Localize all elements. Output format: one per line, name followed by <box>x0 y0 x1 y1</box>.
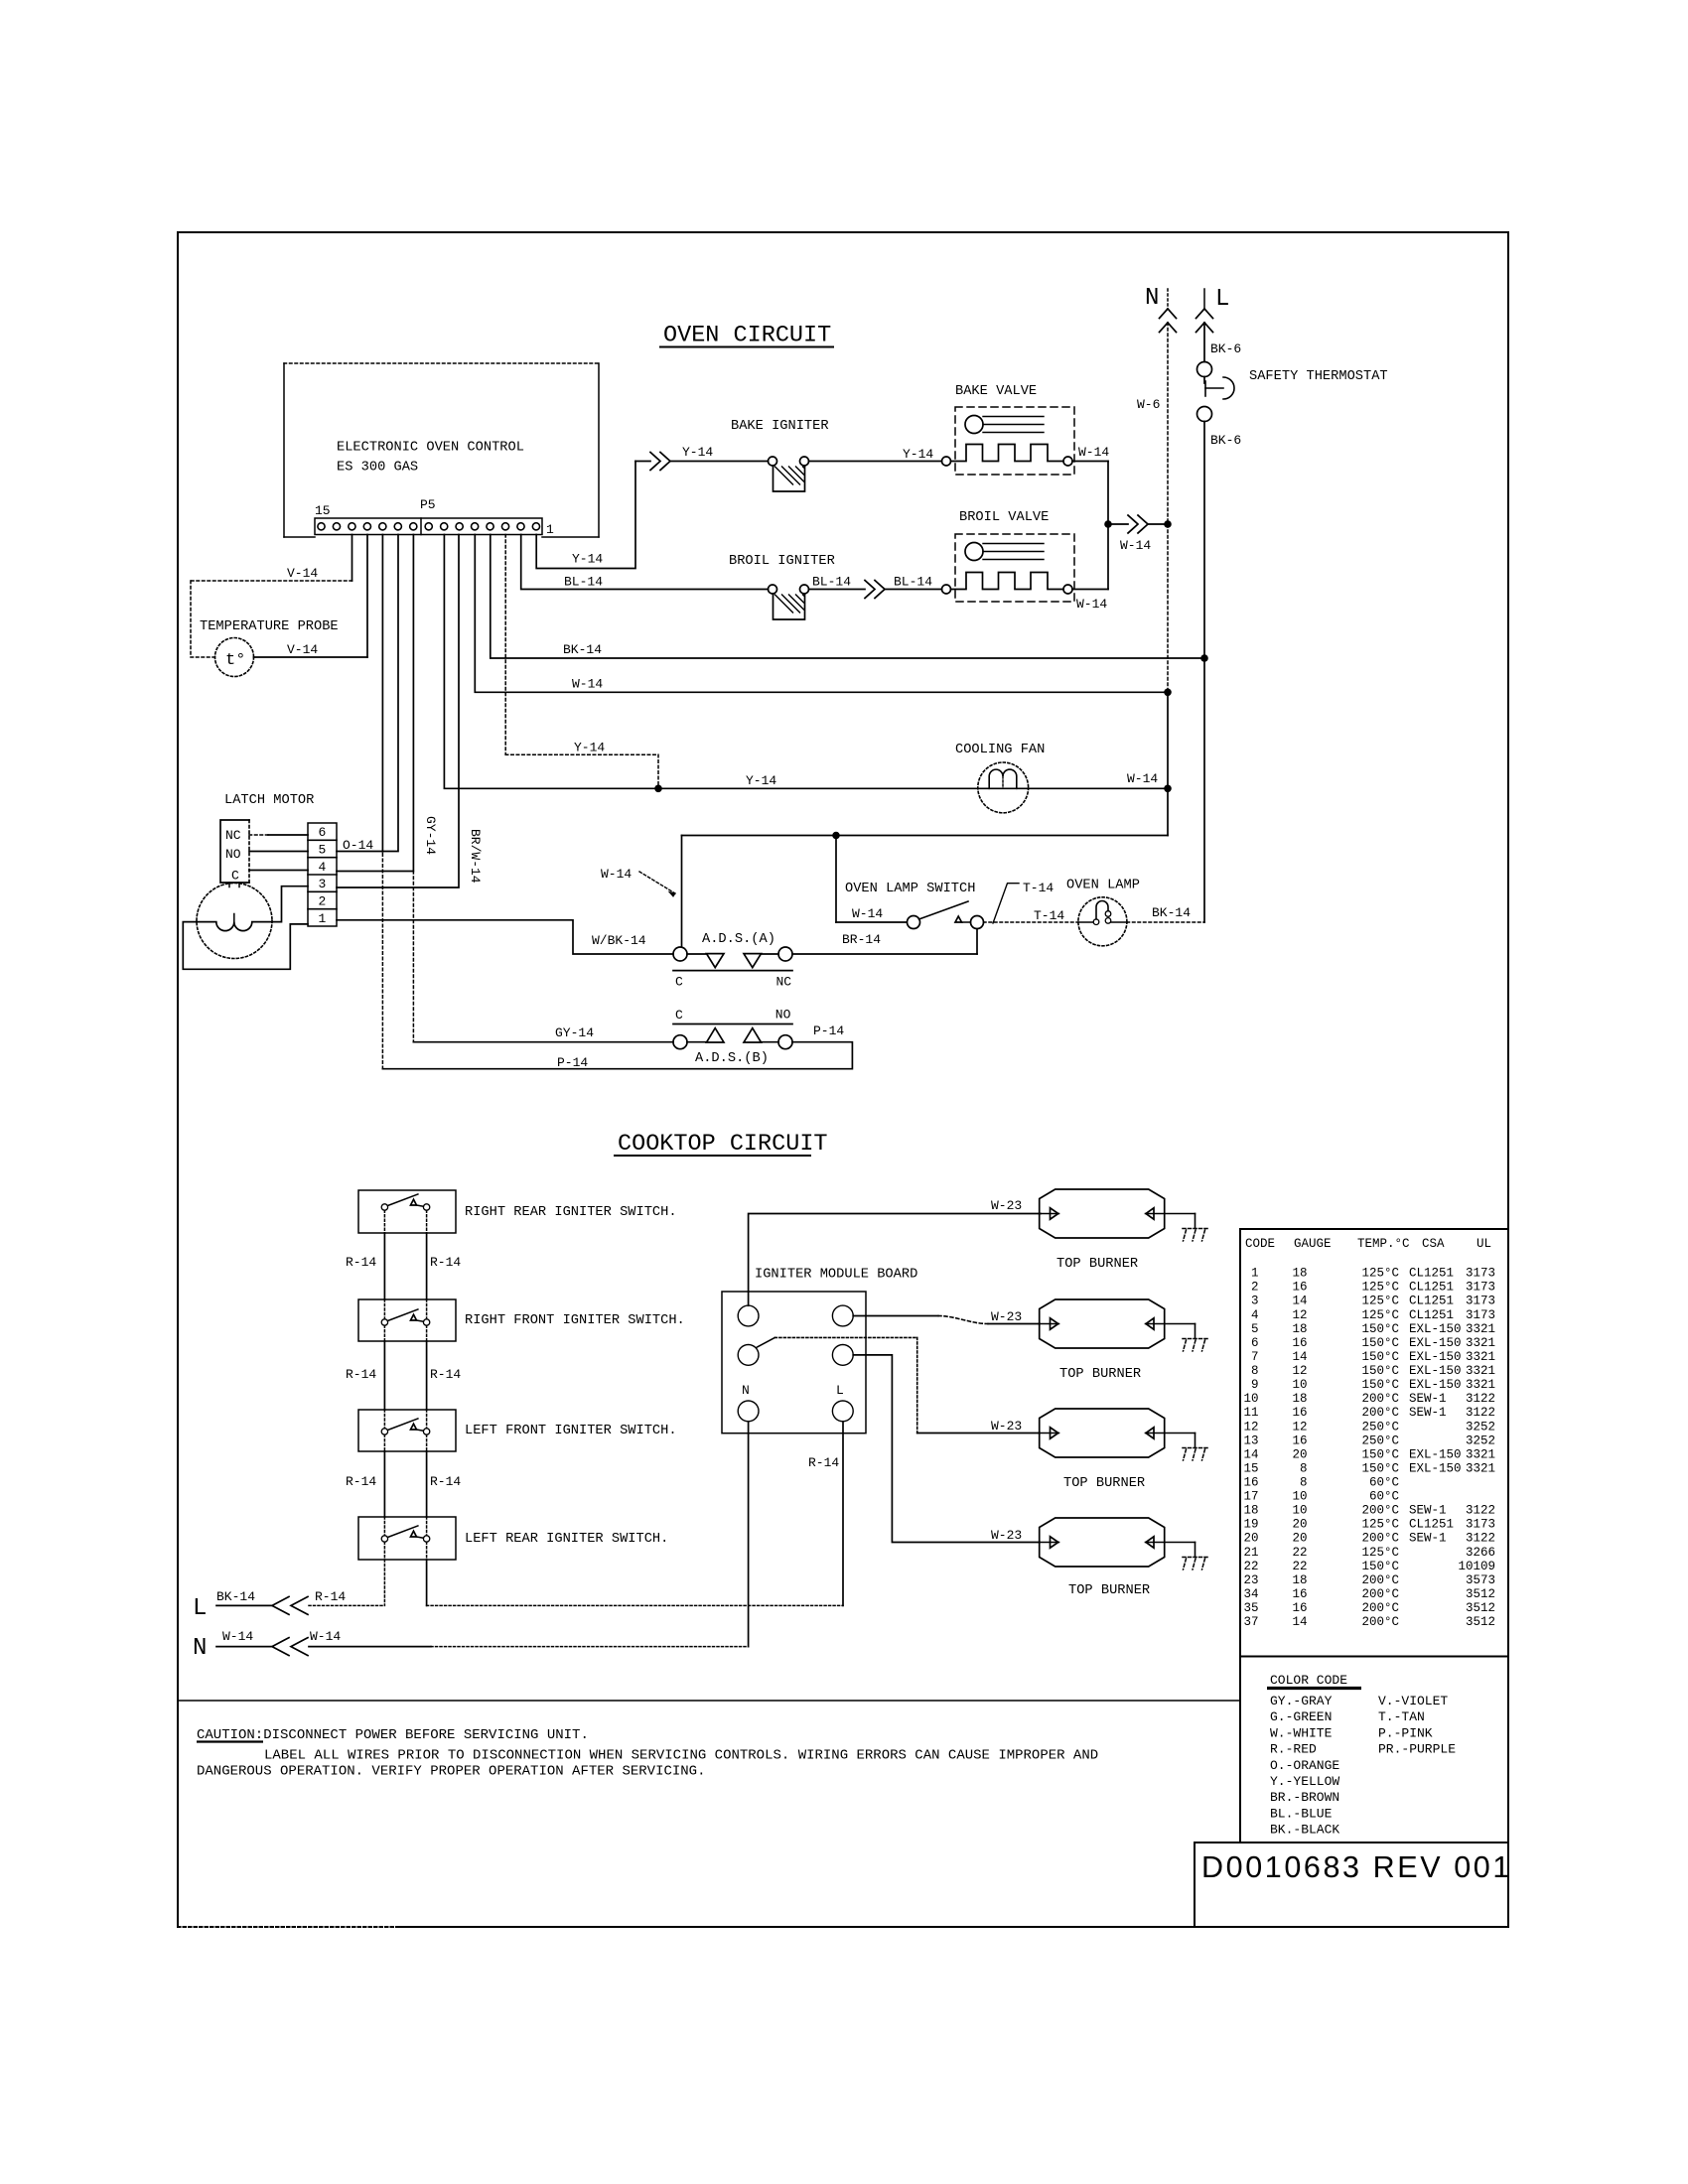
svg-text:60°C: 60°C <box>1369 1476 1399 1490</box>
svg-text:150°C: 150°C <box>1361 1322 1399 1336</box>
svg-text:BROIL VALVE: BROIL VALVE <box>959 510 1049 525</box>
svg-text:GY.-GRAY: GY.-GRAY <box>1270 1694 1333 1708</box>
svg-text:8: 8 <box>1300 1476 1308 1490</box>
svg-text:125°C: 125°C <box>1361 1546 1399 1560</box>
svg-text:BK-14: BK-14 <box>216 1589 255 1604</box>
svg-text:COOLING FAN: COOLING FAN <box>955 743 1045 757</box>
svg-text:CL1251: CL1251 <box>1409 1281 1454 1295</box>
svg-text:125°C: 125°C <box>1361 1295 1399 1308</box>
svg-text:200°C: 200°C <box>1361 1504 1399 1518</box>
svg-text:150°C: 150°C <box>1361 1560 1399 1573</box>
svg-text:GY-14: GY-14 <box>423 816 438 855</box>
svg-text:150°C: 150°C <box>1361 1447 1399 1461</box>
svg-text:R-14: R-14 <box>430 1367 461 1382</box>
svg-text:3173: 3173 <box>1466 1518 1495 1532</box>
svg-text:14: 14 <box>1292 1615 1307 1629</box>
svg-text:R.-RED: R.-RED <box>1270 1742 1317 1757</box>
svg-text:3321: 3321 <box>1466 1336 1495 1350</box>
svg-text:IGNITER MODULE BOARD: IGNITER MODULE BOARD <box>755 1268 917 1283</box>
svg-text:A.D.S.(A): A.D.S.(A) <box>702 932 775 947</box>
svg-text:19: 19 <box>1243 1518 1258 1532</box>
svg-text:BR.-BROWN: BR.-BROWN <box>1270 1790 1339 1805</box>
svg-text:150°C: 150°C <box>1361 1461 1399 1475</box>
svg-text:W-6: W-6 <box>1137 397 1160 412</box>
svg-text:W-23: W-23 <box>991 1419 1022 1433</box>
svg-text:R-14: R-14 <box>346 1367 376 1382</box>
svg-text:200°C: 200°C <box>1361 1532 1399 1546</box>
svg-text:3122: 3122 <box>1466 1532 1495 1546</box>
svg-text:3173: 3173 <box>1466 1281 1495 1295</box>
svg-text:R-14: R-14 <box>346 1474 376 1489</box>
svg-text:11: 11 <box>1243 1406 1258 1420</box>
svg-text:SEW-1: SEW-1 <box>1409 1406 1447 1420</box>
svg-text:20: 20 <box>1292 1518 1307 1532</box>
svg-text:Y-14: Y-14 <box>572 552 603 567</box>
svg-text:3321: 3321 <box>1466 1350 1495 1364</box>
svg-text:Y-14: Y-14 <box>903 447 933 462</box>
svg-text:BR/W-14: BR/W-14 <box>468 829 483 884</box>
svg-text:Y-14: Y-14 <box>574 741 605 755</box>
svg-text:BK-14: BK-14 <box>1152 905 1191 920</box>
svg-text:22: 22 <box>1243 1560 1258 1573</box>
svg-text:BK-14: BK-14 <box>563 642 602 657</box>
svg-text:LABEL ALL WIRES PRIOR TO DISCO: LABEL ALL WIRES PRIOR TO DISCONNECTION W… <box>264 1748 1098 1764</box>
svg-text:TOP BURNER: TOP BURNER <box>1059 1367 1141 1382</box>
svg-text:3512: 3512 <box>1466 1615 1495 1629</box>
svg-text:W-14: W-14 <box>601 867 632 882</box>
svg-text:BL.-BLUE: BL.-BLUE <box>1270 1806 1333 1821</box>
svg-text:CL1251: CL1251 <box>1409 1267 1454 1281</box>
svg-text:Y.-YELLOW: Y.-YELLOW <box>1270 1774 1339 1789</box>
svg-text:L: L <box>1215 286 1229 313</box>
svg-text:2: 2 <box>1251 1281 1259 1295</box>
svg-text:G.-GREEN: G.-GREEN <box>1270 1709 1332 1724</box>
svg-text:18: 18 <box>1292 1322 1307 1336</box>
svg-text:W-14: W-14 <box>1127 771 1158 786</box>
svg-text:W-14: W-14 <box>1076 597 1107 612</box>
svg-text:14: 14 <box>1292 1295 1307 1308</box>
svg-text:V.-VIOLET: V.-VIOLET <box>1378 1694 1448 1708</box>
svg-text:12: 12 <box>1292 1420 1307 1433</box>
svg-text:BAKE IGNITER: BAKE IGNITER <box>731 419 829 434</box>
svg-text:10109: 10109 <box>1458 1560 1495 1573</box>
svg-text:20: 20 <box>1292 1447 1307 1461</box>
svg-text:O-14: O-14 <box>343 838 373 853</box>
svg-text:OVEN LAMP: OVEN LAMP <box>1066 879 1140 893</box>
svg-text:SAFETY THERMOSTAT: SAFETY THERMOSTAT <box>1249 369 1388 384</box>
svg-text:3321: 3321 <box>1466 1322 1495 1336</box>
svg-text:C: C <box>675 1008 683 1023</box>
svg-text:NC: NC <box>776 975 792 990</box>
svg-text:200°C: 200°C <box>1361 1615 1399 1629</box>
svg-text:D0010683 REV 001: D0010683 REV 001 <box>1201 1850 1512 1884</box>
svg-text:21: 21 <box>1243 1546 1258 1560</box>
svg-text:16: 16 <box>1243 1476 1258 1490</box>
svg-text:35: 35 <box>1243 1601 1258 1615</box>
svg-text:W/BK-14: W/BK-14 <box>592 933 646 948</box>
svg-text:17: 17 <box>1243 1490 1258 1504</box>
svg-text:W-14: W-14 <box>1078 445 1109 460</box>
svg-text:3321: 3321 <box>1466 1461 1495 1475</box>
svg-text:3173: 3173 <box>1466 1295 1495 1308</box>
svg-text:TOP BURNER: TOP BURNER <box>1056 1257 1138 1272</box>
svg-text:200°C: 200°C <box>1361 1406 1399 1420</box>
svg-text:P-14: P-14 <box>813 1024 844 1038</box>
svg-text:P-14: P-14 <box>557 1055 588 1070</box>
svg-text:W-14: W-14 <box>572 677 603 692</box>
svg-text:16: 16 <box>1292 1587 1307 1601</box>
svg-text:16: 16 <box>1292 1406 1307 1420</box>
svg-text:T-14: T-14 <box>1023 881 1054 895</box>
svg-text:BAKE VALVE: BAKE VALVE <box>955 384 1037 399</box>
svg-text:16: 16 <box>1292 1336 1307 1350</box>
svg-text:TEMP.°C: TEMP.°C <box>1357 1237 1410 1251</box>
svg-text:3122: 3122 <box>1466 1504 1495 1518</box>
svg-text:3173: 3173 <box>1466 1267 1495 1281</box>
svg-text:5: 5 <box>1251 1322 1259 1336</box>
svg-text:CL1251: CL1251 <box>1409 1295 1454 1308</box>
svg-text:L: L <box>836 1383 844 1398</box>
svg-text:BROIL IGNITER: BROIL IGNITER <box>729 554 835 569</box>
svg-text:250°C: 250°C <box>1361 1420 1399 1433</box>
svg-text:125°C: 125°C <box>1361 1518 1399 1532</box>
svg-text:13: 13 <box>1243 1433 1258 1447</box>
svg-text:10: 10 <box>1243 1392 1258 1406</box>
svg-text:18: 18 <box>1243 1504 1258 1518</box>
svg-text:12: 12 <box>1292 1308 1307 1322</box>
svg-text:P5: P5 <box>420 497 436 512</box>
svg-text:PR.-PURPLE: PR.-PURPLE <box>1378 1742 1456 1757</box>
svg-text:t°: t° <box>225 651 245 670</box>
svg-text:EXL-150: EXL-150 <box>1409 1461 1462 1475</box>
svg-text:2: 2 <box>319 894 327 909</box>
svg-text:BK-6: BK-6 <box>1210 433 1241 448</box>
svg-text:RIGHT REAR IGNITER SWITCH.: RIGHT REAR IGNITER SWITCH. <box>465 1205 677 1220</box>
svg-text:37: 37 <box>1243 1615 1258 1629</box>
svg-text:23: 23 <box>1243 1573 1258 1587</box>
svg-text:22: 22 <box>1292 1560 1307 1573</box>
svg-text:NC: NC <box>225 828 241 843</box>
svg-text:150°C: 150°C <box>1361 1336 1399 1350</box>
svg-text:COOKTOP CIRCUIT: COOKTOP CIRCUIT <box>618 1131 828 1158</box>
svg-text:ELECTRONIC OVEN CONTROL: ELECTRONIC OVEN CONTROL <box>337 441 524 456</box>
svg-text:R-14: R-14 <box>346 1255 376 1270</box>
svg-text:BL-14: BL-14 <box>564 575 603 590</box>
svg-text:14: 14 <box>1243 1447 1258 1461</box>
svg-text:20: 20 <box>1292 1532 1307 1546</box>
svg-text:1: 1 <box>546 522 554 537</box>
svg-text:BL-14: BL-14 <box>812 575 851 590</box>
svg-text:BK.-BLACK: BK.-BLACK <box>1270 1823 1339 1838</box>
svg-text:OVEN LAMP SWITCH: OVEN LAMP SWITCH <box>845 882 975 896</box>
svg-text:P.-PINK: P.-PINK <box>1378 1725 1433 1740</box>
svg-text:LATCH MOTOR: LATCH MOTOR <box>224 793 314 808</box>
svg-text:W-23: W-23 <box>991 1528 1022 1543</box>
svg-text:15: 15 <box>315 503 331 518</box>
svg-text:16: 16 <box>1292 1601 1307 1615</box>
svg-text:ES 300 GAS: ES 300 GAS <box>337 461 418 476</box>
svg-text:R-14: R-14 <box>808 1455 839 1470</box>
svg-text:34: 34 <box>1243 1587 1258 1601</box>
svg-text:COLOR CODE: COLOR CODE <box>1270 1673 1347 1688</box>
svg-text:6: 6 <box>1251 1336 1259 1350</box>
svg-text:150°C: 150°C <box>1361 1364 1399 1378</box>
svg-text:200°C: 200°C <box>1361 1392 1399 1406</box>
svg-text:10: 10 <box>1292 1490 1307 1504</box>
svg-text:T-14: T-14 <box>1034 908 1064 923</box>
svg-text:NO: NO <box>225 847 241 862</box>
svg-text:10: 10 <box>1292 1504 1307 1518</box>
svg-text:CSA: CSA <box>1422 1237 1445 1251</box>
svg-text:SEW-1: SEW-1 <box>1409 1392 1447 1406</box>
svg-text:LEFT FRONT IGNITER SWITCH.: LEFT FRONT IGNITER SWITCH. <box>465 1424 677 1438</box>
svg-text:3321: 3321 <box>1466 1378 1495 1392</box>
svg-text:125°C: 125°C <box>1361 1281 1399 1295</box>
svg-text:6: 6 <box>319 825 327 840</box>
svg-text:3573: 3573 <box>1466 1573 1495 1587</box>
svg-text:R-14: R-14 <box>315 1589 346 1604</box>
svg-text:L: L <box>193 1595 207 1622</box>
svg-text:22: 22 <box>1292 1546 1307 1560</box>
svg-text:3512: 3512 <box>1466 1587 1495 1601</box>
svg-text:4: 4 <box>319 860 327 875</box>
svg-text:W-14: W-14 <box>1120 538 1151 553</box>
svg-text:W-23: W-23 <box>991 1198 1022 1213</box>
svg-text:EXL-150: EXL-150 <box>1409 1378 1462 1392</box>
svg-text:N: N <box>742 1383 750 1398</box>
svg-text:T.-TAN: T.-TAN <box>1378 1709 1425 1724</box>
svg-text:SEW-1: SEW-1 <box>1409 1504 1447 1518</box>
svg-text:C: C <box>675 975 683 990</box>
svg-text:18: 18 <box>1292 1573 1307 1587</box>
svg-text:3252: 3252 <box>1466 1433 1495 1447</box>
svg-text:200°C: 200°C <box>1361 1601 1399 1615</box>
svg-text:1: 1 <box>1251 1267 1259 1281</box>
svg-text:10: 10 <box>1292 1378 1307 1392</box>
svg-text:CL1251: CL1251 <box>1409 1518 1454 1532</box>
svg-text:3266: 3266 <box>1466 1546 1495 1560</box>
svg-text:8: 8 <box>1251 1364 1259 1378</box>
svg-text:UL: UL <box>1477 1237 1491 1251</box>
svg-text:14: 14 <box>1292 1350 1307 1364</box>
svg-text:Y-14: Y-14 <box>682 445 713 460</box>
svg-text:W.-WHITE: W.-WHITE <box>1270 1725 1333 1740</box>
svg-text:TOP BURNER: TOP BURNER <box>1068 1583 1150 1598</box>
svg-text:3321: 3321 <box>1466 1447 1495 1461</box>
svg-text:3252: 3252 <box>1466 1420 1495 1433</box>
svg-text:W-14: W-14 <box>310 1629 341 1644</box>
svg-text:O.-ORANGE: O.-ORANGE <box>1270 1758 1339 1773</box>
svg-text:5: 5 <box>319 843 327 858</box>
svg-text:9: 9 <box>1251 1378 1259 1392</box>
svg-text:A.D.S.(B): A.D.S.(B) <box>695 1051 769 1066</box>
svg-text:1: 1 <box>319 911 327 926</box>
svg-text:R-14: R-14 <box>430 1474 461 1489</box>
svg-text:3122: 3122 <box>1466 1406 1495 1420</box>
svg-text:200°C: 200°C <box>1361 1587 1399 1601</box>
svg-text:W-23: W-23 <box>991 1309 1022 1324</box>
svg-text:EXL-150: EXL-150 <box>1409 1336 1462 1350</box>
svg-text:15: 15 <box>1243 1461 1258 1475</box>
svg-text:TEMPERATURE PROBE: TEMPERATURE PROBE <box>200 619 339 634</box>
svg-text:16: 16 <box>1292 1433 1307 1447</box>
svg-text:C: C <box>231 869 239 884</box>
svg-text:4: 4 <box>1251 1308 1259 1322</box>
svg-text:W-14: W-14 <box>852 906 883 921</box>
svg-text:BL-14: BL-14 <box>894 575 932 590</box>
svg-text:8: 8 <box>1300 1461 1308 1475</box>
svg-text:EXL-150: EXL-150 <box>1409 1364 1462 1378</box>
svg-text:N: N <box>1145 285 1159 312</box>
svg-text:BR-14: BR-14 <box>842 932 881 947</box>
svg-text:Y-14: Y-14 <box>746 773 776 788</box>
svg-text:16: 16 <box>1292 1281 1307 1295</box>
svg-text:SEW-1: SEW-1 <box>1409 1532 1447 1546</box>
svg-text:250°C: 250°C <box>1361 1433 1399 1447</box>
svg-text:V-14: V-14 <box>287 566 318 581</box>
svg-text:12: 12 <box>1292 1364 1307 1378</box>
svg-text:3: 3 <box>1251 1295 1259 1308</box>
svg-text:3: 3 <box>319 877 327 891</box>
svg-text:150°C: 150°C <box>1361 1378 1399 1392</box>
svg-text:125°C: 125°C <box>1361 1267 1399 1281</box>
svg-text:150°C: 150°C <box>1361 1350 1399 1364</box>
svg-text:20: 20 <box>1243 1532 1258 1546</box>
svg-text:BK-6: BK-6 <box>1210 341 1241 356</box>
svg-text:LEFT REAR IGNITER SWITCH.: LEFT REAR IGNITER SWITCH. <box>465 1532 668 1547</box>
svg-text:12: 12 <box>1243 1420 1258 1433</box>
svg-text:7: 7 <box>1251 1350 1259 1364</box>
svg-text:RIGHT FRONT IGNITER SWITCH.: RIGHT FRONT IGNITER SWITCH. <box>465 1313 685 1328</box>
svg-text:W-14: W-14 <box>222 1629 253 1644</box>
svg-text:GAUGE: GAUGE <box>1294 1237 1332 1251</box>
svg-text:CL1251: CL1251 <box>1409 1308 1454 1322</box>
svg-text:EXL-150: EXL-150 <box>1409 1350 1462 1364</box>
svg-text:EXL-150: EXL-150 <box>1409 1322 1462 1336</box>
svg-text:18: 18 <box>1292 1392 1307 1406</box>
svg-text:3512: 3512 <box>1466 1601 1495 1615</box>
svg-text:V-14: V-14 <box>287 642 318 657</box>
svg-text:NO: NO <box>775 1008 791 1023</box>
svg-text:R-14: R-14 <box>430 1255 461 1270</box>
svg-text:125°C: 125°C <box>1361 1308 1399 1322</box>
svg-text:18: 18 <box>1292 1267 1307 1281</box>
svg-text:CODE: CODE <box>1245 1237 1275 1251</box>
svg-text:OVEN CIRCUIT: OVEN CIRCUIT <box>663 323 831 349</box>
svg-text:GY-14: GY-14 <box>555 1025 594 1040</box>
svg-text:3173: 3173 <box>1466 1308 1495 1322</box>
svg-text:TOP BURNER: TOP BURNER <box>1063 1476 1145 1491</box>
svg-text:DANGEROUS OPERATION. VERIFY PR: DANGEROUS OPERATION. VERIFY PROPER OPERA… <box>197 1764 705 1780</box>
svg-text:60°C: 60°C <box>1369 1490 1399 1504</box>
svg-text:EXL-150: EXL-150 <box>1409 1447 1462 1461</box>
svg-text:3122: 3122 <box>1466 1392 1495 1406</box>
svg-text:N: N <box>193 1635 207 1662</box>
svg-text:3321: 3321 <box>1466 1364 1495 1378</box>
svg-text:200°C: 200°C <box>1361 1573 1399 1587</box>
